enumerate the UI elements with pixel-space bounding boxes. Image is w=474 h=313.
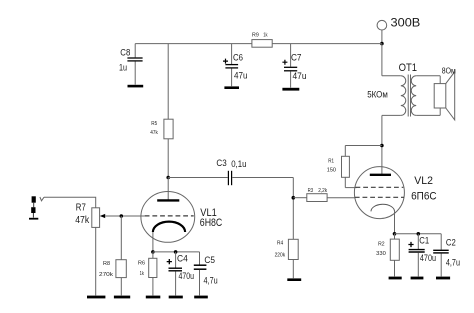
ground (R8) <box>114 296 130 299</box>
VL2 anode bar <box>370 174 391 176</box>
capacitor C4 <box>167 252 194 296</box>
svg-text:6П6С: 6П6С <box>411 190 437 202</box>
svg-text:47k: 47k <box>150 130 158 136</box>
wire primary bottom down to VL2 anode <box>381 115 383 174</box>
VL1 cathode <box>153 222 185 232</box>
ground (R7) <box>87 296 105 299</box>
svg-text:300В: 300В <box>391 15 421 29</box>
ground (R4) <box>287 278 301 281</box>
svg-text:2,2k: 2,2k <box>318 188 327 194</box>
svg-text:R7: R7 <box>76 202 86 213</box>
ground (C4) <box>169 296 183 299</box>
capacitor C2 <box>433 234 460 277</box>
transformer OT1 secondary <box>411 76 440 116</box>
svg-text:R8: R8 <box>103 261 110 267</box>
resistor R4 <box>275 239 299 278</box>
svg-text:6Н8С: 6Н8С <box>200 217 223 229</box>
capacitor C5 <box>194 252 218 296</box>
wire terminal to rail <box>381 30 383 44</box>
VL1 anode bar <box>157 199 179 201</box>
svg-text:330: 330 <box>376 251 386 257</box>
ground (C6) <box>224 86 239 89</box>
svg-text:0,1u: 0,1u <box>231 159 246 170</box>
svg-text:R3: R3 <box>308 188 314 194</box>
wire top rail right <box>272 43 382 45</box>
svg-text:1k: 1k <box>140 271 145 277</box>
wire input to R7 <box>44 197 96 208</box>
wire cathode rail VL2 <box>395 233 442 235</box>
VL2 screen grid (dashed) <box>356 186 404 188</box>
ground (C8) <box>128 85 144 88</box>
svg-text:VL2: VL2 <box>414 175 433 187</box>
resistor R2 <box>376 234 399 277</box>
svg-text:150: 150 <box>327 167 336 173</box>
speaker <box>434 72 455 120</box>
node anode junction <box>380 144 384 148</box>
wire B+ to transformer primary <box>381 44 383 76</box>
svg-text:C8: C8 <box>120 48 130 59</box>
svg-text:4,7u: 4,7u <box>204 276 218 287</box>
ground (C5) <box>194 296 208 299</box>
node C1 top <box>417 232 421 236</box>
node VL2 grid <box>292 196 296 200</box>
ground (R6) <box>146 296 161 299</box>
capacitor C1 <box>408 234 436 277</box>
VL2 control grid (dashed) <box>355 196 404 198</box>
svg-text:4,7u: 4,7u <box>446 257 460 268</box>
wire VL1 anode to C3 <box>168 177 228 179</box>
resistor R6 <box>138 252 157 296</box>
svg-text:C3: C3 <box>216 158 226 169</box>
svg-text:470u: 470u <box>179 271 195 282</box>
svg-text:220k: 220k <box>275 252 286 258</box>
svg-text:5КОм: 5КОм <box>367 89 388 99</box>
svg-text:47u: 47u <box>234 70 248 81</box>
svg-text:R1: R1 <box>328 159 334 165</box>
svg-text:R4: R4 <box>277 240 283 246</box>
svg-text:R9: R9 <box>252 32 259 38</box>
svg-text:R2: R2 <box>378 241 385 247</box>
node R8 top <box>120 214 124 218</box>
ground (C7) <box>282 88 299 91</box>
node C4 top <box>174 250 178 254</box>
svg-text:270k: 270k <box>99 272 114 278</box>
wire VL2 cathode down <box>394 211 396 233</box>
node VL2 cathode <box>393 232 397 236</box>
wire top rail left <box>135 43 252 45</box>
node B+ junction <box>380 42 384 46</box>
terminal 300V <box>377 20 387 30</box>
transformer OT1 primary <box>382 76 406 116</box>
svg-text:OT1: OT1 <box>399 62 417 74</box>
resistor R3 <box>293 188 355 202</box>
input jack <box>29 196 44 219</box>
tube VL1 <box>141 178 195 243</box>
svg-text:C2: C2 <box>446 237 456 248</box>
potentiometer R7 <box>75 202 145 295</box>
node VL1 cathode <box>151 250 155 254</box>
capacitor C3 <box>216 158 246 185</box>
ground (R2) <box>389 277 402 280</box>
wire cathode rail VL1 <box>153 251 200 253</box>
junction dot anode VL1 node <box>166 176 170 180</box>
VL1 anode lead <box>167 178 169 201</box>
resistor R9 <box>252 32 272 47</box>
svg-text:470u: 470u <box>420 253 436 264</box>
svg-text:8Ом: 8Ом <box>442 67 456 76</box>
svg-text:R5: R5 <box>151 121 157 127</box>
svg-text:C1: C1 <box>419 235 429 246</box>
svg-text:R6: R6 <box>138 260 145 266</box>
tube VL2 <box>354 167 404 219</box>
capacitor C7 <box>282 44 306 88</box>
resistor R5 <box>150 44 173 178</box>
transformer OT1 core <box>407 75 409 117</box>
VL2 cathode <box>371 204 395 211</box>
svg-text:C7: C7 <box>291 53 302 64</box>
VL1 grid (dashed) <box>145 215 194 217</box>
resistor R1 <box>327 146 382 188</box>
wire VL1 cathode down <box>152 232 154 252</box>
svg-text:1u: 1u <box>119 63 127 74</box>
svg-text:47k: 47k <box>75 215 90 226</box>
svg-text:C4: C4 <box>177 253 188 264</box>
capacitor C8 <box>119 44 143 85</box>
capacitor C6 <box>223 44 248 87</box>
svg-text:C5: C5 <box>204 255 215 266</box>
wire C3 to grid node <box>232 177 293 179</box>
ground (C2) <box>436 277 450 280</box>
ground (C1) <box>411 277 424 280</box>
resistor R8 <box>99 216 126 295</box>
svg-text:1k: 1k <box>263 32 268 38</box>
svg-text:47u: 47u <box>293 71 307 82</box>
svg-text:C6: C6 <box>233 53 243 64</box>
